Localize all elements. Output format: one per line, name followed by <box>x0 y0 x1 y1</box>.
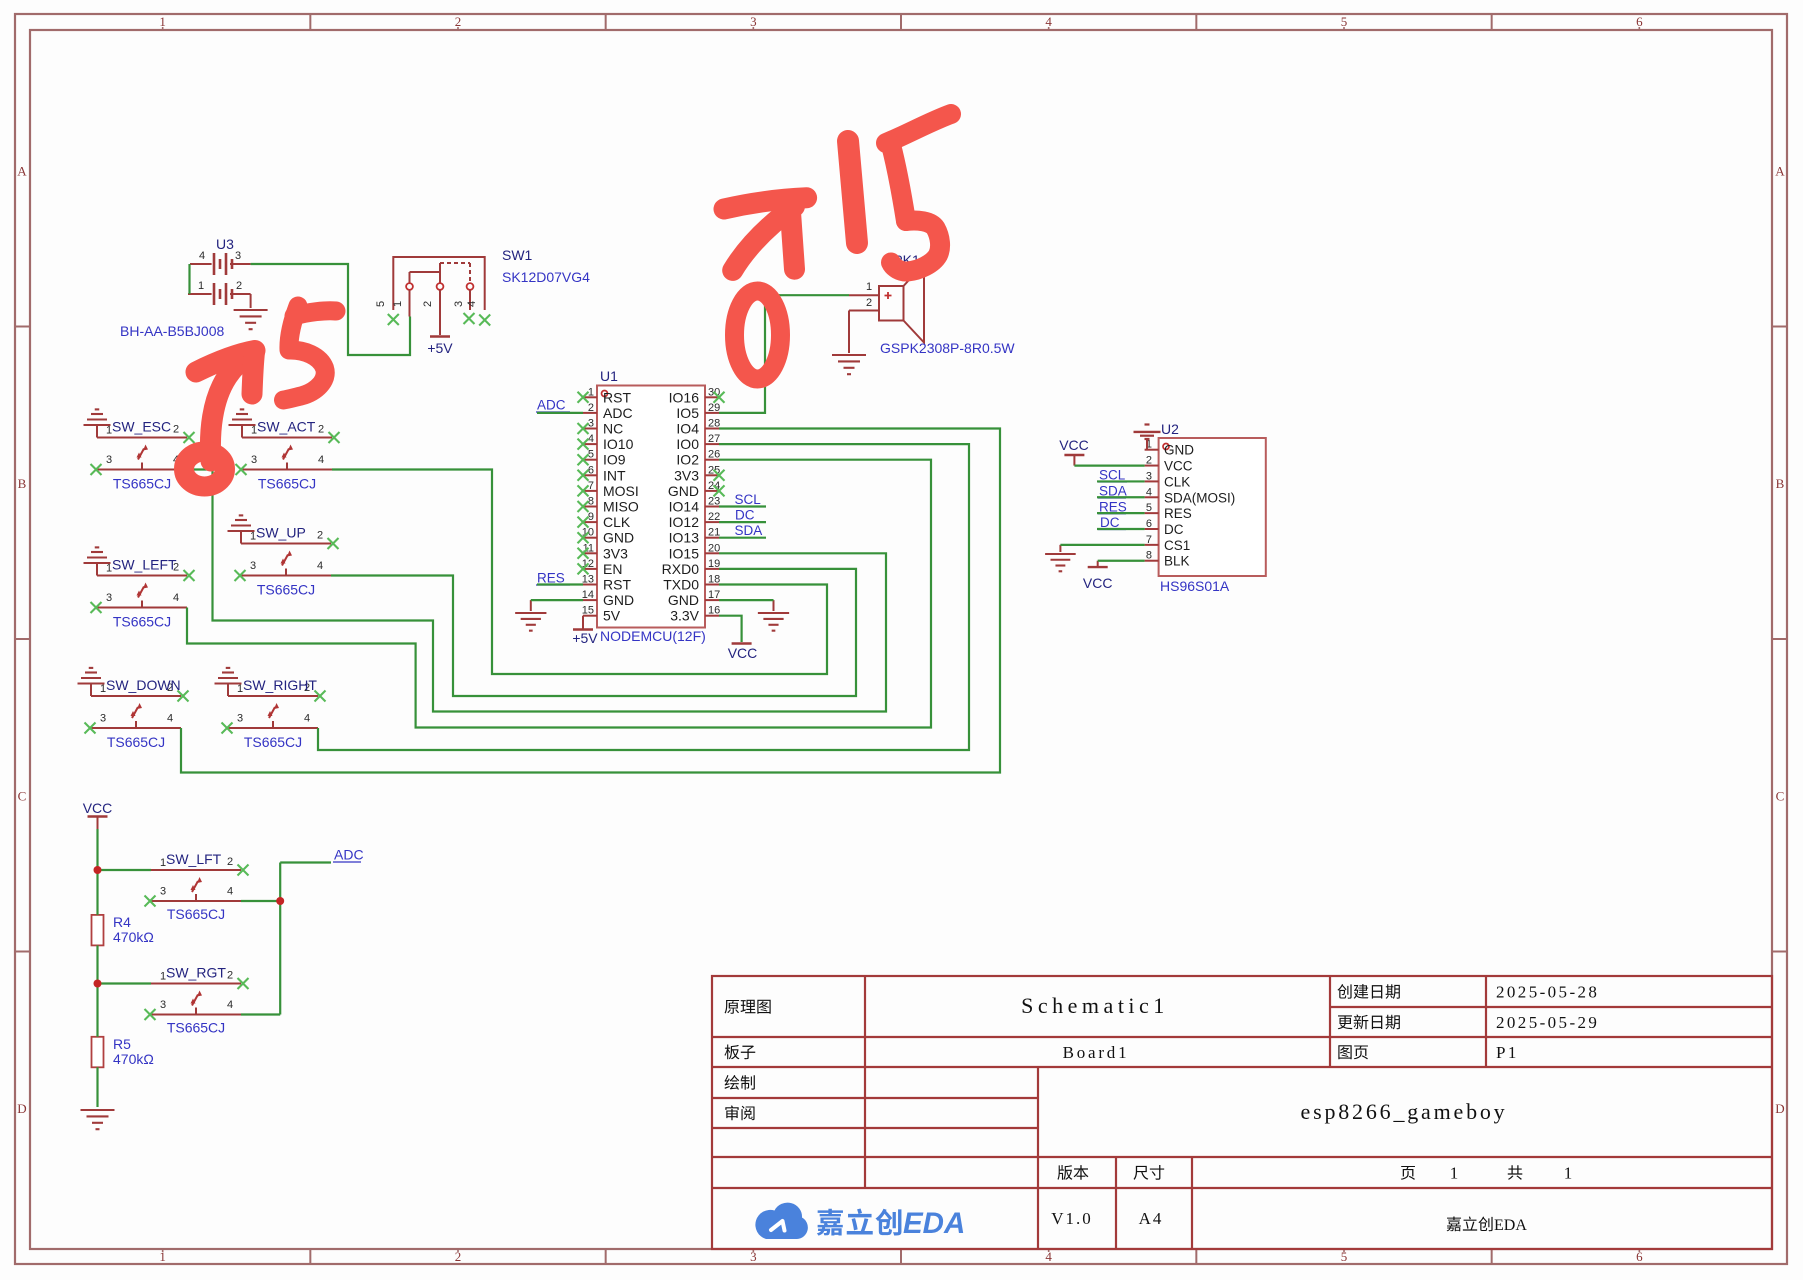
svg-text:RES: RES <box>537 571 565 586</box>
svg-text:TS665CJ: TS665CJ <box>244 734 302 750</box>
svg-text:4: 4 <box>1146 486 1152 498</box>
svg-text:SDA: SDA <box>735 523 763 538</box>
svg-text:470kΩ: 470kΩ <box>113 929 154 945</box>
svg-text:TS665CJ: TS665CJ <box>257 582 315 598</box>
svg-text:2: 2 <box>173 424 179 436</box>
svg-text:SW1: SW1 <box>502 247 533 263</box>
svg-text:2: 2 <box>1146 455 1152 467</box>
svg-text:5: 5 <box>375 301 387 307</box>
svg-text:8: 8 <box>1146 550 1152 562</box>
svg-text:VCC: VCC <box>1164 459 1193 474</box>
svg-text:4: 4 <box>1045 14 1052 29</box>
svg-text:NC: NC <box>603 421 623 437</box>
svg-text:Schematic1: Schematic1 <box>1021 993 1169 1018</box>
svg-text:3: 3 <box>100 713 106 725</box>
svg-text:C: C <box>1776 788 1785 803</box>
svg-text:IO16: IO16 <box>669 389 700 405</box>
svg-text:A4: A4 <box>1139 1209 1164 1228</box>
svg-text:VCC: VCC <box>1059 437 1089 453</box>
svg-text:B: B <box>18 476 27 491</box>
svg-text:2: 2 <box>227 856 233 868</box>
svg-text:2: 2 <box>227 970 233 982</box>
svg-text:ADC: ADC <box>334 847 364 863</box>
svg-text:IO13: IO13 <box>669 530 700 546</box>
svg-text:HS96S01A: HS96S01A <box>1160 578 1230 594</box>
svg-text:2025-05-28: 2025-05-28 <box>1496 983 1599 1002</box>
svg-text:NODEMCU(12F): NODEMCU(12F) <box>600 628 706 644</box>
svg-text:IO2: IO2 <box>676 452 699 468</box>
svg-text:TS665CJ: TS665CJ <box>167 906 225 922</box>
svg-text:3: 3 <box>251 454 257 466</box>
svg-text:TS665CJ: TS665CJ <box>113 614 171 630</box>
svg-text:MISO: MISO <box>603 499 639 515</box>
svg-text:29: 29 <box>708 402 720 414</box>
svg-text:DC: DC <box>735 508 755 523</box>
svg-text:CLK: CLK <box>603 514 631 530</box>
svg-text:2: 2 <box>317 530 323 542</box>
svg-text:TXD0: TXD0 <box>663 577 699 593</box>
svg-text:23: 23 <box>708 496 720 508</box>
svg-text:5V: 5V <box>603 608 621 624</box>
svg-text:4: 4 <box>167 713 173 725</box>
svg-text:470kΩ: 470kΩ <box>113 1051 154 1067</box>
svg-text:DC: DC <box>1100 515 1120 530</box>
svg-text:+5V: +5V <box>427 340 453 356</box>
svg-text:SCL: SCL <box>1099 468 1126 483</box>
svg-text:3V3: 3V3 <box>674 467 699 483</box>
svg-text:EDA: EDA <box>1494 1217 1527 1234</box>
svg-text:ADC: ADC <box>537 398 566 413</box>
svg-text:2: 2 <box>866 297 872 309</box>
svg-text:VCC: VCC <box>83 800 113 816</box>
svg-text:3: 3 <box>453 301 465 307</box>
svg-text:4: 4 <box>318 454 324 466</box>
svg-text:RXD0: RXD0 <box>662 561 700 577</box>
svg-text:2: 2 <box>455 14 462 29</box>
svg-text:21: 21 <box>708 527 720 539</box>
svg-text:Board1: Board1 <box>1063 1043 1130 1062</box>
svg-text:D: D <box>17 1101 26 1116</box>
svg-text:GND: GND <box>1164 443 1194 458</box>
svg-text:IO0: IO0 <box>676 436 699 452</box>
svg-text:2025-05-29: 2025-05-29 <box>1496 1013 1599 1032</box>
svg-text:B: B <box>1776 476 1785 491</box>
svg-text:4: 4 <box>227 999 233 1011</box>
svg-text:IO4: IO4 <box>676 421 699 437</box>
svg-text:19: 19 <box>708 558 720 570</box>
svg-text:3: 3 <box>1146 470 1152 482</box>
svg-text:CS1: CS1 <box>1164 538 1190 553</box>
svg-text:EN: EN <box>603 561 622 577</box>
svg-text:27: 27 <box>708 433 720 445</box>
svg-text:ADC: ADC <box>603 405 633 421</box>
svg-text:P1: P1 <box>1496 1043 1519 1062</box>
svg-text:BLK: BLK <box>1164 554 1190 569</box>
svg-text:SW_RIGHT: SW_RIGHT <box>243 677 317 693</box>
svg-text:4: 4 <box>466 301 478 307</box>
svg-text:TS665CJ: TS665CJ <box>113 476 171 492</box>
svg-text:3: 3 <box>160 886 166 898</box>
svg-text:IO10: IO10 <box>603 436 634 452</box>
svg-text:5: 5 <box>1146 502 1152 514</box>
svg-text:BH-AA-B5BJ008: BH-AA-B5BJ008 <box>120 323 224 339</box>
svg-text:2: 2 <box>318 424 324 436</box>
svg-text:GSPK2308P-8R0.5W: GSPK2308P-8R0.5W <box>880 340 1015 356</box>
svg-text:28: 28 <box>708 418 720 430</box>
svg-text:GND: GND <box>668 483 699 499</box>
svg-text:4: 4 <box>317 560 323 572</box>
svg-text:U1: U1 <box>600 368 618 384</box>
svg-text:4: 4 <box>227 886 233 898</box>
svg-text:RES: RES <box>1164 506 1192 521</box>
svg-text:18: 18 <box>708 574 720 586</box>
svg-text:15: 15 <box>582 605 594 617</box>
svg-text:D: D <box>1775 1101 1784 1116</box>
svg-text:+5V: +5V <box>572 630 598 646</box>
svg-text:1: 1 <box>159 14 166 29</box>
svg-text:V1.0: V1.0 <box>1051 1209 1093 1228</box>
svg-text:5: 5 <box>1341 14 1348 29</box>
svg-text:INT: INT <box>603 467 626 483</box>
svg-text:RST: RST <box>603 389 631 405</box>
svg-text:R5: R5 <box>113 1036 131 1052</box>
svg-text:1: 1 <box>866 281 872 293</box>
svg-text:SW_ACT: SW_ACT <box>257 419 316 435</box>
svg-text:GND: GND <box>603 592 634 608</box>
svg-text:SW_RGT: SW_RGT <box>166 965 226 981</box>
svg-text:A: A <box>1775 163 1785 178</box>
svg-text:7: 7 <box>1146 534 1152 546</box>
svg-text:1: 1 <box>1450 1164 1459 1183</box>
svg-text:R4: R4 <box>113 914 131 930</box>
svg-text:SCL: SCL <box>735 492 762 507</box>
svg-text:IO14: IO14 <box>669 499 700 515</box>
svg-text:20: 20 <box>708 542 720 554</box>
svg-text:26: 26 <box>708 449 720 461</box>
svg-text:3: 3 <box>235 250 241 262</box>
svg-text:3: 3 <box>106 454 112 466</box>
svg-text:4: 4 <box>199 250 205 262</box>
svg-text:2: 2 <box>236 280 242 292</box>
svg-text:IO5: IO5 <box>676 405 699 421</box>
svg-text:1: 1 <box>198 280 204 292</box>
svg-text:TS665CJ: TS665CJ <box>107 734 165 750</box>
svg-text:GND: GND <box>603 530 634 546</box>
svg-text:TS665CJ: TS665CJ <box>167 1020 225 1036</box>
svg-text:6: 6 <box>1146 518 1152 530</box>
svg-text:13: 13 <box>582 574 594 586</box>
svg-text:2: 2 <box>588 402 594 414</box>
svg-text:SW_ESC: SW_ESC <box>112 419 171 435</box>
svg-text:3: 3 <box>160 999 166 1011</box>
svg-text:22: 22 <box>708 511 720 523</box>
svg-text:SK12D07VG4: SK12D07VG4 <box>502 269 590 285</box>
svg-text:DC: DC <box>1164 522 1184 537</box>
svg-text:RST: RST <box>603 577 631 593</box>
svg-text:SW_LFT: SW_LFT <box>166 851 222 867</box>
svg-text:A: A <box>17 163 27 178</box>
svg-text:C: C <box>18 788 27 803</box>
svg-text:17: 17 <box>708 589 720 601</box>
svg-text:SDA(MOSI): SDA(MOSI) <box>1164 490 1235 505</box>
svg-text:4: 4 <box>173 592 179 604</box>
svg-text:SW_LEFT: SW_LEFT <box>112 557 177 573</box>
svg-text:3.3V: 3.3V <box>670 608 699 624</box>
svg-text:6: 6 <box>1636 14 1643 29</box>
svg-text:16: 16 <box>708 605 720 617</box>
svg-text:IO15: IO15 <box>669 545 700 561</box>
svg-text:esp8266_gameboy: esp8266_gameboy <box>1301 1099 1508 1124</box>
svg-text:VCC: VCC <box>728 645 758 661</box>
svg-text:IO12: IO12 <box>669 514 700 530</box>
svg-text:3V3: 3V3 <box>603 545 628 561</box>
svg-text:SW_DOWN: SW_DOWN <box>106 677 181 693</box>
svg-text:1: 1 <box>392 301 404 307</box>
svg-text:EDA: EDA <box>903 1207 965 1240</box>
svg-text:U3: U3 <box>216 236 234 252</box>
svg-text:4: 4 <box>304 713 310 725</box>
svg-text:2: 2 <box>422 301 434 307</box>
svg-text:CLK: CLK <box>1164 474 1190 489</box>
svg-text:MOSI: MOSI <box>603 483 639 499</box>
svg-text:3: 3 <box>250 560 256 572</box>
svg-text:3: 3 <box>237 713 243 725</box>
svg-text:1: 1 <box>1564 1164 1573 1183</box>
svg-text:U2: U2 <box>1161 421 1179 437</box>
svg-text:TS665CJ: TS665CJ <box>258 476 316 492</box>
svg-text:SW_UP: SW_UP <box>256 525 306 541</box>
svg-text:GND: GND <box>668 592 699 608</box>
svg-text:3: 3 <box>106 592 112 604</box>
svg-text:14: 14 <box>582 589 594 601</box>
svg-text:IO9: IO9 <box>603 452 626 468</box>
svg-text:3: 3 <box>750 14 757 29</box>
svg-text:VCC: VCC <box>1083 575 1113 591</box>
